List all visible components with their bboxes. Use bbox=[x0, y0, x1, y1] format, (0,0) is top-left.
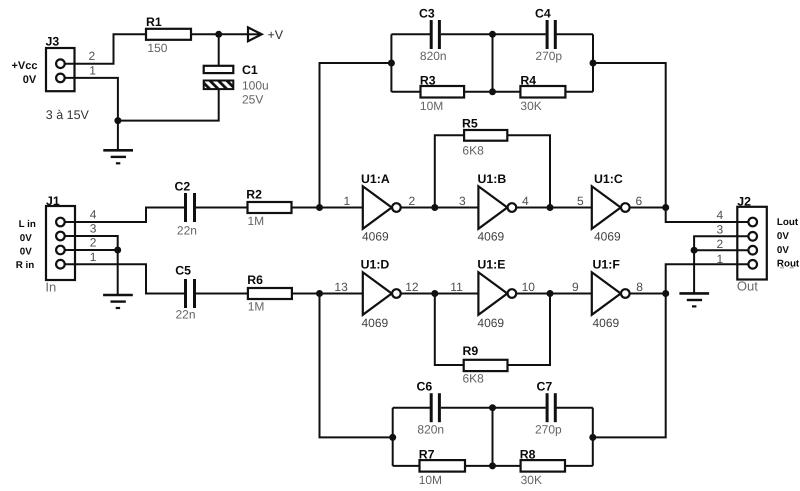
svg-text:+Vcc: +Vcc bbox=[12, 60, 38, 72]
wire J1 pin4 to C2 bbox=[60, 208, 184, 223]
resistor R6 bbox=[247, 273, 292, 314]
junction top feedback right bbox=[590, 60, 597, 67]
wire U1:E output to U1:F input bbox=[516, 293, 593, 295]
ground (J3) bbox=[103, 150, 133, 163]
svg-text:10M: 10M bbox=[420, 99, 443, 113]
junction C6/C7 node bbox=[489, 404, 496, 411]
resistor R8 bbox=[520, 448, 565, 488]
svg-text:5: 5 bbox=[577, 194, 584, 208]
svg-text:12: 12 bbox=[405, 280, 419, 294]
junction U1:E output node bbox=[547, 290, 554, 297]
op-amp U1:F (inverter) bbox=[592, 258, 630, 331]
svg-text:8: 8 bbox=[636, 280, 643, 294]
connector J1 bbox=[16, 194, 97, 295]
capacitor C6 bbox=[417, 380, 445, 437]
svg-text:4069: 4069 bbox=[362, 316, 389, 330]
wire U1:B output to U1:C input bbox=[516, 207, 593, 209]
svg-text:U1:F: U1:F bbox=[593, 258, 621, 272]
svg-text:150: 150 bbox=[147, 41, 167, 55]
svg-text:U1:E: U1:E bbox=[477, 258, 505, 272]
svg-text:2: 2 bbox=[89, 49, 96, 63]
wire right node to J2 pin1 bbox=[666, 264, 749, 293]
junction R7/R8 node bbox=[489, 462, 496, 469]
junction U1:A output node bbox=[431, 204, 438, 211]
svg-text:R9: R9 bbox=[463, 344, 479, 358]
svg-text:3: 3 bbox=[717, 222, 724, 236]
svg-text:1: 1 bbox=[90, 250, 97, 264]
wire top feedback middle vertical bbox=[492, 34, 494, 92]
wire top cap rail segment 2 bbox=[441, 33, 546, 35]
svg-text:J1: J1 bbox=[46, 194, 60, 208]
junction U1:F output node bbox=[662, 290, 669, 297]
wire bottom cap rail segment 2 bbox=[441, 407, 546, 409]
resistor R4 bbox=[520, 74, 565, 114]
op-amp U1:A (inverter) bbox=[361, 172, 401, 244]
junction R3/R4 node bbox=[489, 88, 496, 95]
wire C1 bottom to ground node bbox=[118, 89, 219, 121]
svg-text:2: 2 bbox=[409, 194, 416, 208]
junction after R2 bbox=[316, 204, 323, 211]
connector J3 bbox=[12, 35, 97, 123]
capacitor C1 (electrolytic) bbox=[204, 63, 269, 107]
svg-text:30K: 30K bbox=[521, 473, 542, 487]
wire R6 to U1:D input bbox=[292, 293, 364, 295]
svg-text:C4: C4 bbox=[535, 7, 551, 21]
wire J2 pin2 to ground bbox=[694, 250, 748, 293]
wire bottom resistor rail segment 2 bbox=[465, 465, 521, 467]
ground (J2) bbox=[679, 293, 709, 306]
wire bottom feedback middle vertical bbox=[492, 408, 494, 466]
op-amp U1:E (inverter) bbox=[477, 258, 516, 331]
wire top feedback right loop vertical bbox=[592, 34, 594, 92]
svg-text:11: 11 bbox=[450, 280, 463, 294]
wire bottom cap rail segment 3 bbox=[556, 407, 592, 409]
svg-text:J3: J3 bbox=[46, 35, 60, 49]
svg-text:22n: 22n bbox=[177, 224, 197, 238]
svg-text:C3: C3 bbox=[419, 7, 435, 21]
wire U1:F output to right node bbox=[630, 293, 666, 295]
svg-text:R5: R5 bbox=[462, 117, 478, 131]
svg-text:J2: J2 bbox=[737, 195, 751, 209]
wire R5 feedback loop bbox=[435, 135, 464, 207]
svg-text:R4: R4 bbox=[520, 74, 536, 88]
wire left vertical to bottom feedback bbox=[320, 294, 393, 438]
svg-text:R8: R8 bbox=[520, 448, 536, 462]
wire J1 pin3 to pin2 node bbox=[60, 236, 117, 250]
svg-text:R3: R3 bbox=[420, 74, 436, 88]
svg-text:0V: 0V bbox=[23, 74, 37, 86]
svg-text:6: 6 bbox=[636, 194, 643, 208]
svg-text:1: 1 bbox=[344, 194, 351, 208]
svg-text:25V: 25V bbox=[242, 93, 263, 107]
svg-text:13: 13 bbox=[334, 280, 348, 294]
svg-text:4: 4 bbox=[90, 208, 97, 222]
wire J2 pin3 to pin2 node bbox=[694, 236, 748, 250]
svg-text:4069: 4069 bbox=[593, 316, 620, 330]
svg-text:C1: C1 bbox=[242, 63, 258, 77]
svg-text:4069: 4069 bbox=[594, 230, 621, 244]
junction C3/C4 node bbox=[489, 31, 496, 38]
svg-text:3 à 15V: 3 à 15V bbox=[46, 108, 90, 122]
wire R1 to +V arrow bbox=[191, 33, 260, 35]
connector J2 bbox=[717, 195, 800, 294]
capacitor C4 bbox=[535, 7, 562, 64]
wire left vertical to top feedback bbox=[320, 63, 392, 208]
wire R9 feedback loop bbox=[435, 294, 464, 366]
svg-text:1M: 1M bbox=[248, 300, 265, 314]
wire J1 pin1 to C5 bbox=[60, 264, 184, 293]
svg-text:0V: 0V bbox=[20, 247, 32, 258]
svg-text:U1:A: U1:A bbox=[361, 172, 390, 186]
wire U1:A output to U1:B input bbox=[401, 207, 480, 209]
svg-text:0V: 0V bbox=[777, 245, 789, 256]
+V arrow bbox=[248, 27, 284, 42]
ground (J1) bbox=[103, 295, 133, 308]
resistor R9 bbox=[463, 344, 508, 386]
svg-text:4069: 4069 bbox=[362, 230, 389, 244]
op-amp U1:B (inverter) bbox=[478, 172, 517, 244]
wire J3 pin1 down to ground bbox=[61, 78, 118, 150]
svg-text:C2: C2 bbox=[175, 180, 191, 194]
svg-text:2: 2 bbox=[90, 235, 97, 249]
wire J3 pin2 to R1 bbox=[61, 34, 147, 63]
svg-text:270p: 270p bbox=[535, 49, 562, 63]
junction U1:B output node bbox=[547, 204, 554, 211]
svg-text:4: 4 bbox=[522, 194, 529, 208]
svg-text:L in: L in bbox=[19, 219, 36, 230]
capacitor C7 bbox=[535, 380, 562, 437]
svg-text:30K: 30K bbox=[520, 99, 541, 113]
svg-text:4069: 4069 bbox=[478, 230, 505, 244]
svg-text:820n: 820n bbox=[417, 423, 444, 437]
resistor R3 bbox=[420, 74, 464, 114]
wire bottom resistor rail segment 1 bbox=[393, 465, 420, 467]
junction J1 pin2/pin3 node bbox=[114, 247, 121, 254]
wire top resistor rail segment 2 bbox=[464, 91, 520, 93]
svg-text:U1:B: U1:B bbox=[478, 172, 507, 186]
svg-text:R7: R7 bbox=[419, 448, 435, 462]
capacitor C2 bbox=[175, 180, 197, 238]
wire top cap rail segment 3 bbox=[556, 33, 593, 35]
junction U1:D output node bbox=[431, 290, 438, 297]
svg-text:9: 9 bbox=[572, 280, 579, 294]
wire C2 to R2 bbox=[196, 207, 248, 209]
svg-text:4069: 4069 bbox=[477, 316, 504, 330]
svg-text:10M: 10M bbox=[419, 473, 442, 487]
svg-text:R1: R1 bbox=[146, 15, 162, 29]
resistor R1 bbox=[146, 15, 191, 55]
junction bottom feedback right bbox=[589, 434, 596, 441]
wire bottom resistor rail segment 3 bbox=[566, 465, 593, 467]
svg-text:R2: R2 bbox=[246, 188, 262, 202]
resistor R5 bbox=[462, 117, 507, 158]
svg-text:U1:C: U1:C bbox=[594, 172, 623, 186]
svg-text:In: In bbox=[45, 280, 56, 295]
wire bottom cap rail segment 1 bbox=[393, 407, 430, 409]
junction R1/C1/+V node bbox=[215, 31, 222, 38]
svg-text:1: 1 bbox=[89, 64, 96, 78]
svg-text:820n: 820n bbox=[420, 49, 447, 63]
wire bottom feedback right loop vertical bbox=[592, 408, 594, 466]
svg-text:1: 1 bbox=[717, 252, 724, 266]
junction J3 ground node bbox=[114, 117, 121, 124]
wire junction to C1 top bbox=[218, 34, 220, 66]
junction U1:C output node bbox=[662, 204, 669, 211]
svg-text:2: 2 bbox=[717, 237, 724, 251]
wire bottom feedback left loop vertical bbox=[392, 408, 394, 466]
svg-text:Lout: Lout bbox=[777, 217, 799, 228]
svg-text:4: 4 bbox=[717, 208, 724, 222]
svg-text:Out: Out bbox=[737, 279, 758, 294]
junction after R6 bbox=[316, 290, 323, 297]
svg-text:R in: R in bbox=[16, 260, 35, 271]
wire top feedback right connection bbox=[593, 63, 666, 208]
wire R2 to U1:A input bbox=[292, 207, 364, 209]
resistor R7 bbox=[419, 448, 465, 488]
junction bottom feedback left bbox=[389, 434, 396, 441]
wire top resistor rail segment 1 bbox=[391, 91, 420, 93]
wire top cap rail segment 1 bbox=[391, 33, 430, 35]
svg-text:3: 3 bbox=[90, 222, 97, 236]
wire top feedback left loop vertical bbox=[390, 34, 392, 92]
svg-text:C6: C6 bbox=[417, 380, 433, 394]
svg-text:100u: 100u bbox=[242, 79, 269, 93]
svg-text:+V: +V bbox=[268, 28, 284, 42]
junction top feedback left bbox=[388, 60, 395, 67]
wire bottom feedback right connection bbox=[593, 294, 666, 438]
svg-text:0V: 0V bbox=[777, 231, 789, 242]
wire U1:C output to J2 pin4 bbox=[630, 208, 749, 223]
svg-text:6K8: 6K8 bbox=[462, 144, 484, 158]
svg-text:270p: 270p bbox=[535, 423, 562, 437]
wire J1 pin2 to ground bbox=[60, 250, 117, 295]
capacitor C3 bbox=[419, 7, 447, 64]
svg-text:C5: C5 bbox=[175, 264, 191, 278]
svg-text:22n: 22n bbox=[176, 308, 196, 322]
svg-text:R6: R6 bbox=[247, 273, 263, 287]
resistor R2 bbox=[246, 188, 291, 229]
svg-text:U1:D: U1:D bbox=[361, 258, 390, 272]
wire U1:D output to U1:E input bbox=[401, 293, 480, 295]
op-amp U1:D (inverter) bbox=[361, 258, 401, 331]
wire C5 to R6 bbox=[196, 293, 248, 295]
svg-text:1M: 1M bbox=[248, 214, 265, 228]
junction J2 pin2/pin3 node bbox=[691, 247, 698, 254]
svg-text:0V: 0V bbox=[20, 233, 32, 244]
svg-text:6K8: 6K8 bbox=[463, 372, 485, 386]
capacitor C5 bbox=[175, 264, 195, 322]
op-amp U1:C (inverter) bbox=[592, 172, 630, 244]
svg-text:3: 3 bbox=[459, 194, 466, 208]
svg-text:10: 10 bbox=[522, 280, 536, 294]
svg-text:C7: C7 bbox=[537, 380, 553, 394]
wire top resistor rail segment 3 bbox=[565, 91, 593, 93]
